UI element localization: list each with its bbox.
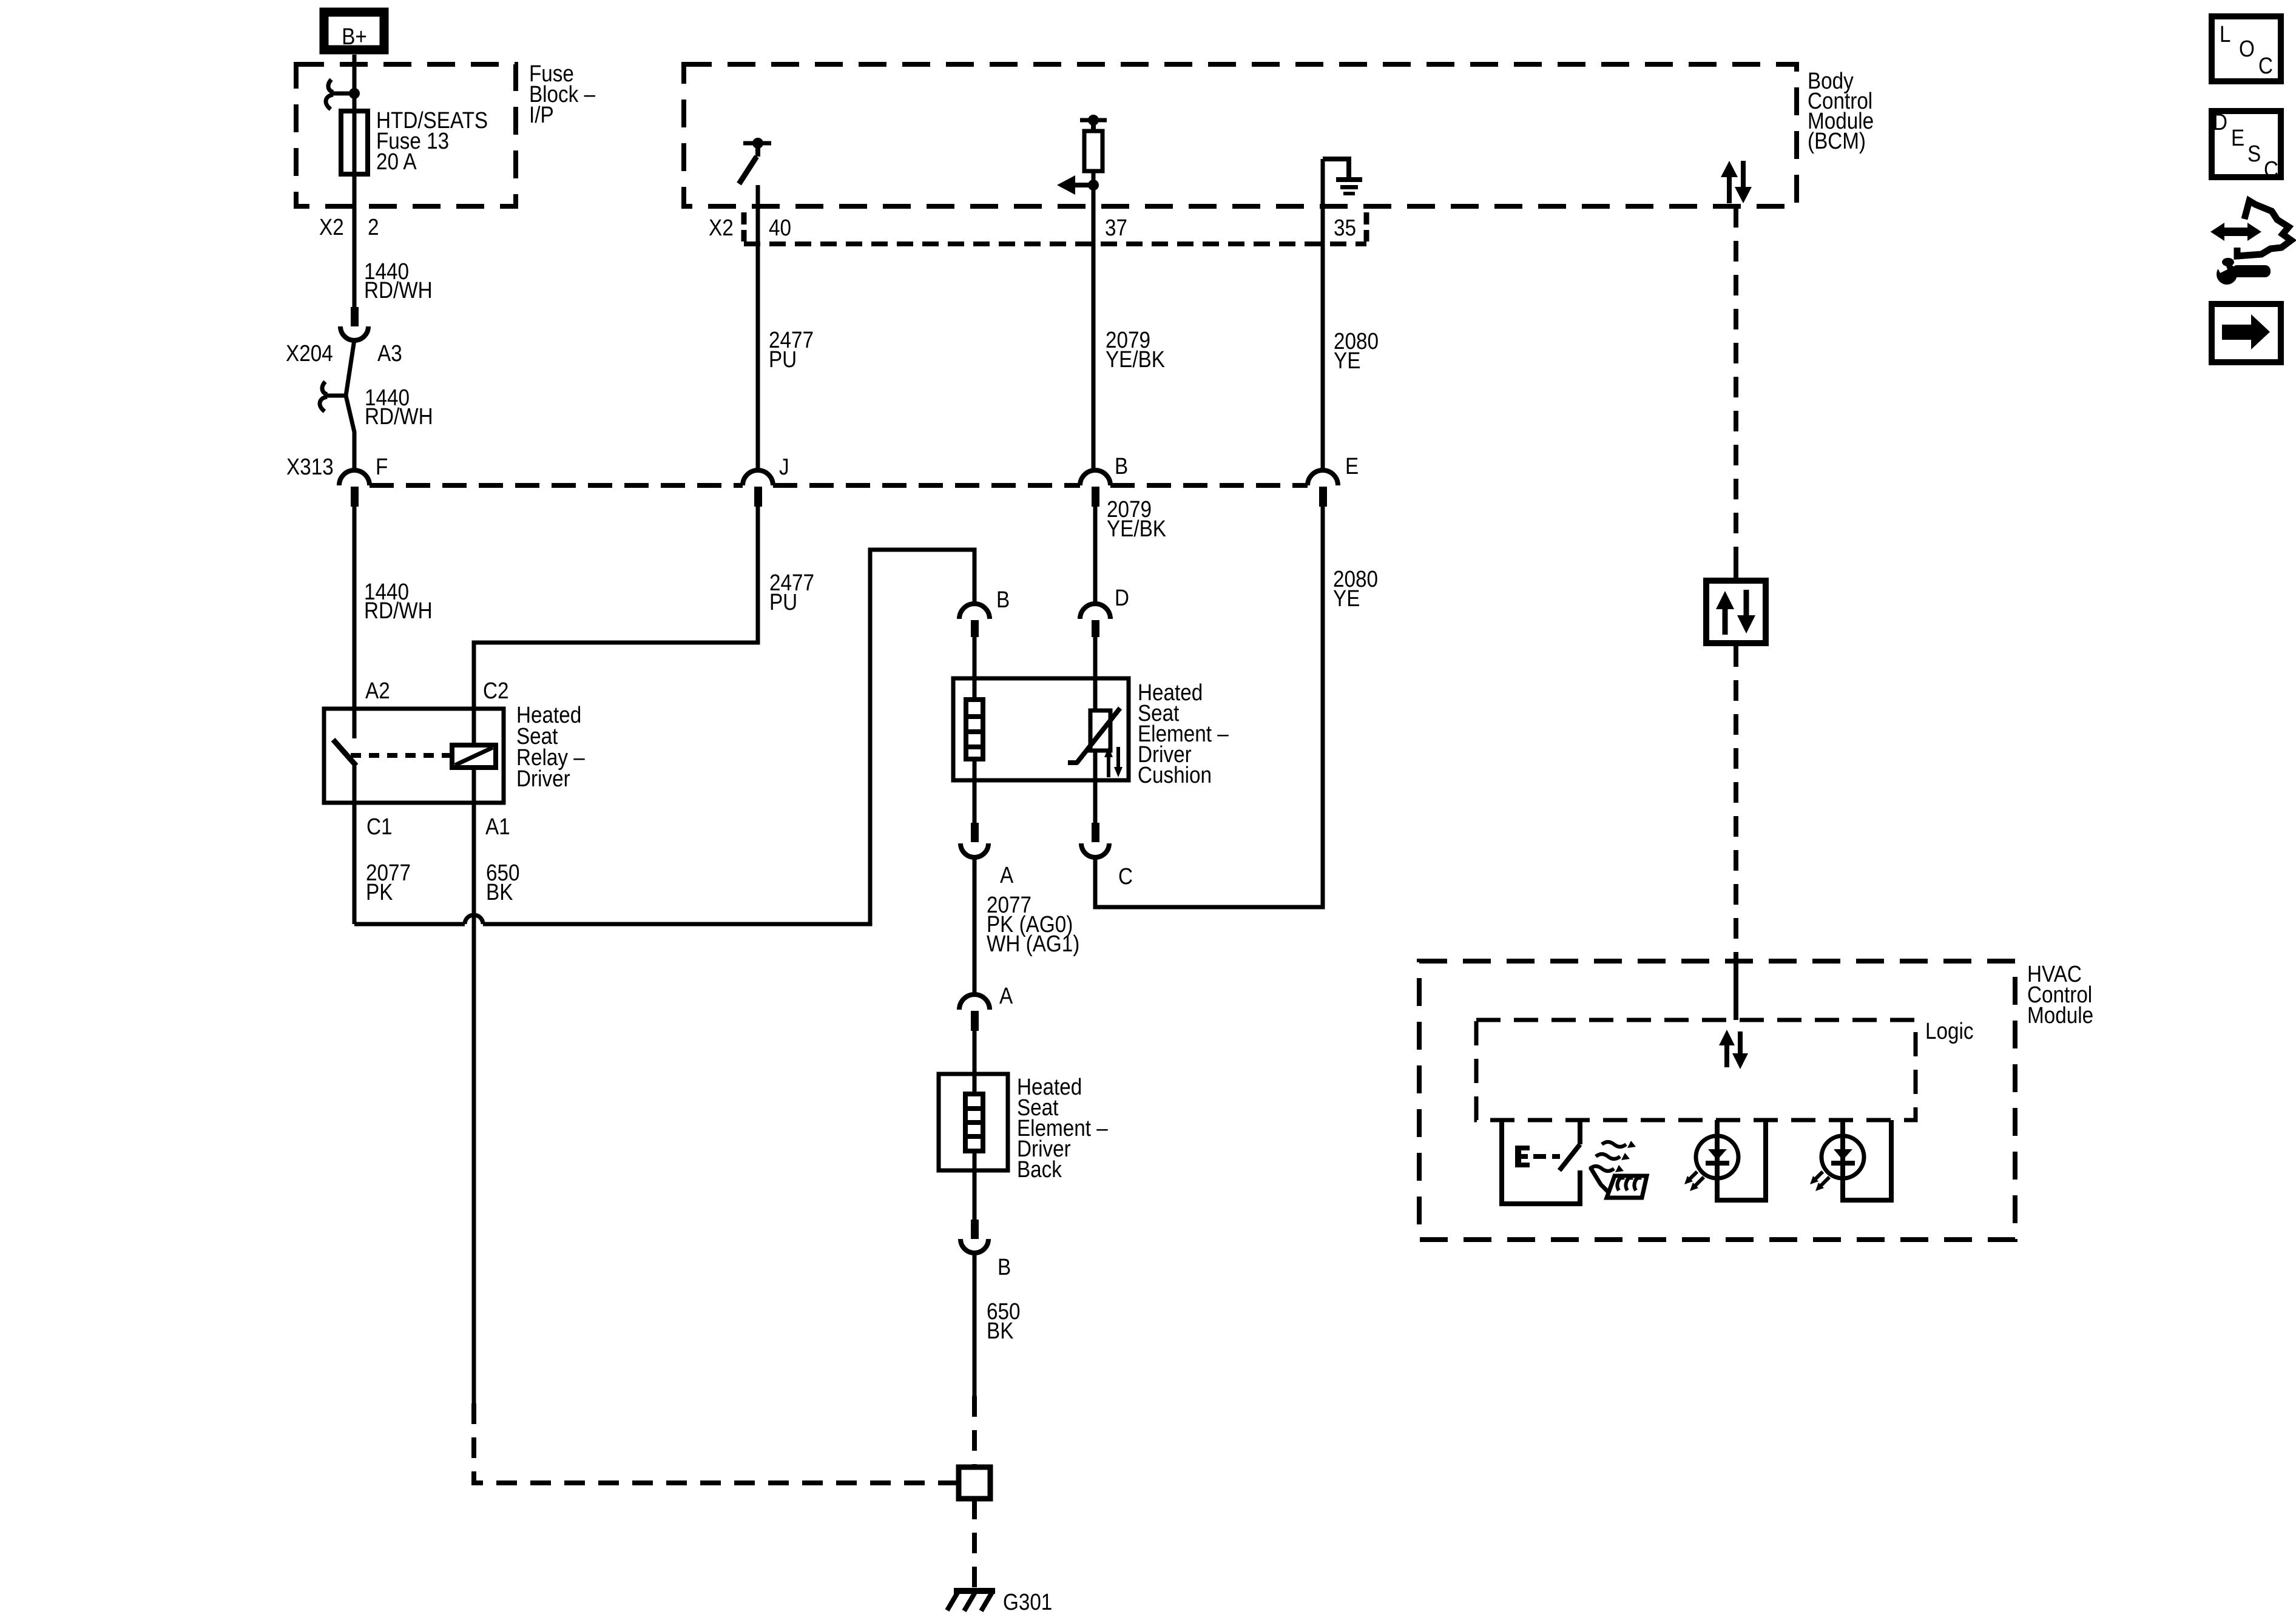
fuse F13 HTD/SEATS [341, 111, 368, 174]
svg-text:E: E [2231, 126, 2244, 151]
svg-text:PK: PK [366, 880, 393, 905]
wire B+ to fuse [353, 55, 357, 307]
wire take-out hook at fuse block [326, 79, 354, 109]
wire 1440 RD/WH label [364, 259, 433, 303]
svg-text:RD/WH: RD/WH [364, 278, 433, 303]
wire 650 BK to splice [973, 1252, 977, 1396]
cushion thermistor [1068, 708, 1120, 763]
connector X313 pin J [743, 454, 789, 507]
svg-text:B: B [1115, 454, 1128, 479]
svg-text:F: F [376, 454, 388, 480]
connector X2 pin 2 labels [319, 215, 379, 240]
svg-text:S: S [2247, 141, 2261, 167]
svg-text:37: 37 [1105, 215, 1127, 241]
svg-text:2: 2 [368, 215, 379, 240]
wire thermistor to pin C [1093, 751, 1098, 824]
cushion heater element [966, 700, 983, 759]
svg-text:X313: X313 [286, 454, 334, 480]
dashed splice to ground [972, 1499, 977, 1588]
node: junction dot on B+ feed [349, 88, 360, 99]
legend forward arrow box [2212, 304, 2281, 362]
heated seat element driver cushion box [953, 678, 1129, 780]
logic dashed box [1476, 1020, 1916, 1120]
svg-text:C2: C2 [483, 678, 509, 704]
relay coil [452, 745, 496, 768]
legend DESC box [2212, 110, 2281, 183]
wire 1440 RD/WH label 3 [364, 579, 433, 624]
wire 2477 PU label 2 [769, 570, 814, 615]
svg-text:Driver: Driver [516, 766, 570, 792]
svg-text:A1: A1 [485, 814, 510, 840]
svg-text:B+: B+ [342, 24, 367, 50]
BCM X2 connector strip [744, 212, 1366, 244]
svg-text:A: A [999, 984, 1013, 1009]
svg-text:C1: C1 [366, 814, 393, 840]
cushion label [1138, 680, 1229, 788]
wire A down [973, 857, 977, 996]
legend part locator icon [2210, 201, 2291, 285]
svg-text:C: C [2258, 53, 2273, 79]
svg-text:A2: A2 [365, 678, 390, 704]
connector X313 pin F [339, 470, 370, 507]
LED indicator 2 [1810, 1120, 1894, 1200]
svg-text:L: L [2220, 22, 2231, 47]
svg-text:A3: A3 [377, 341, 402, 366]
svg-text:RD/WH: RD/WH [365, 404, 433, 430]
svg-text:O: O [2239, 36, 2255, 62]
svg-text:YE/BK: YE/BK [1107, 516, 1166, 542]
BCM internal resistor at pin 37 [1080, 115, 1107, 171]
heated seat relay driver box [324, 709, 504, 803]
wire relay coil to A1 and down [472, 768, 476, 1403]
wire relay C1 down [353, 766, 357, 924]
wire X204 to X313 with take-out kink [346, 340, 354, 472]
svg-text:B: B [996, 587, 1010, 613]
BCM serial data arrows [1721, 161, 1752, 203]
connector X313 dashed harness line [370, 483, 1308, 488]
splice junction box [959, 1467, 990, 1499]
svg-text:Module: Module [2027, 1003, 2093, 1028]
LED indicator 1 [1684, 1120, 1768, 1200]
ground G301 [947, 1588, 1052, 1615]
BCM X2 pin labels [709, 215, 1356, 241]
wire B to cushion box [973, 637, 977, 700]
svg-text:X2: X2 [709, 215, 734, 241]
relay pin labels A2 C2 [365, 678, 509, 704]
BCM label [1808, 69, 1874, 154]
svg-text:C: C [2264, 157, 2278, 183]
svg-text:I/P: I/P [529, 103, 554, 128]
wire back element to pin B [973, 1151, 977, 1223]
connector X313 pin E [1308, 454, 1359, 507]
svg-text:20 A: 20 A [376, 149, 417, 175]
wire 2077 PK label [366, 860, 411, 905]
svg-text:YE/BK: YE/BK [1106, 347, 1165, 373]
connector X204 pin A3 [340, 307, 368, 340]
svg-text:(BCM): (BCM) [1808, 129, 1866, 154]
svg-text:40: 40 [769, 215, 791, 241]
wire F to relay A2 [353, 507, 357, 738]
connector X313 pin B [1080, 454, 1128, 507]
wire 2080 YE label 2 [1333, 567, 1378, 612]
svg-text:PU: PU [769, 590, 797, 615]
svg-text:BK: BK [486, 880, 513, 905]
svg-text:Cushion: Cushion [1138, 763, 1212, 788]
wire 650 BK label [486, 860, 520, 905]
connector pin B of back element [961, 1220, 1011, 1280]
BCM internal switch at pin 40 [739, 138, 771, 184]
svg-text:G301: G301 [1003, 1590, 1052, 1615]
svg-text:J: J [779, 454, 789, 480]
wire A1 dashed to G301 splice [474, 1403, 956, 1483]
power feed B+ [324, 12, 384, 50]
svg-text:WH (AG1): WH (AG1) [987, 931, 1079, 957]
connector X204 labels [286, 341, 402, 366]
wire C1 run to cushion B with hop over 650 BK [354, 550, 974, 924]
logic serial arrows [1719, 1030, 1748, 1069]
back heater element [965, 1094, 983, 1151]
svg-text:YE: YE [1333, 586, 1360, 612]
BCM internal ground at pin 35 [1323, 157, 1362, 195]
connector pin A of back element [959, 984, 1013, 1031]
wire pin B of X313 down to D [1093, 507, 1098, 606]
svg-text:X204: X204 [286, 341, 333, 366]
svg-text:D: D [1115, 586, 1129, 611]
fuse value label [376, 108, 488, 175]
svg-text:YE: YE [1334, 348, 1360, 374]
heated seat indicator icon [1590, 1141, 1647, 1198]
switch E label icon [1515, 1146, 1560, 1167]
dashed 650 BK to splice box [972, 1396, 977, 1467]
HVAC control module dashed box [1419, 961, 2015, 1240]
HVAC label [2027, 962, 2093, 1028]
legend LOC box [2212, 16, 2281, 81]
connector pin C of cushion element [1081, 823, 1133, 890]
serial data dashed line BCM to HVAC [1734, 207, 1738, 1020]
heated seat element driver back box [939, 1074, 1008, 1170]
connector pin B of cushion element [959, 587, 1010, 637]
wire 2077 PK WH label [987, 893, 1079, 957]
svg-text:X2: X2 [319, 215, 344, 240]
svg-text:A: A [1000, 863, 1014, 888]
relay switch blade [333, 740, 356, 766]
relay actuation dashed link [351, 753, 453, 758]
connector pin D of cushion element [1080, 586, 1129, 637]
BCM internal left arrow at pin 37 [1057, 175, 1099, 195]
wire 650 BK label 2 [987, 1299, 1021, 1344]
fuse block I/P dashed box [296, 64, 516, 206]
wire pin 37 [1092, 171, 1096, 470]
relay pin labels C1 A1 [366, 814, 510, 840]
body control module BCM dashed box [684, 64, 1797, 206]
svg-text:B: B [998, 1255, 1011, 1280]
svg-text:BK: BK [987, 1318, 1013, 1344]
wire pin 40 [756, 185, 760, 470]
cushion temp arrows [1104, 747, 1123, 777]
wire take-out hook at X204 [320, 382, 347, 411]
svg-text:35: 35 [1334, 215, 1356, 241]
wire A to back box [973, 1031, 977, 1094]
fuse block label [529, 61, 596, 128]
wire 1440 RD/WH label 2 [365, 385, 433, 430]
wire 2477 PU label [769, 328, 814, 373]
wire element to pin A [973, 759, 977, 824]
svg-text:C: C [1118, 864, 1133, 890]
wire pin E of X313 down and left to C [1095, 507, 1323, 907]
back label [1017, 1075, 1108, 1183]
svg-text:PU: PU [769, 347, 797, 373]
wire pin 35 [1321, 159, 1325, 470]
HVAC heated seat switch loop [1499, 1120, 1582, 1204]
svg-text:RD/WH: RD/WH [364, 598, 433, 624]
wire 2079 YE/BK label 2 [1107, 497, 1166, 542]
svg-text:Logic: Logic [1925, 1019, 1974, 1044]
wire D to thermistor [1093, 637, 1098, 711]
wire 2079 YE/BK label [1106, 328, 1165, 373]
relay label [516, 703, 585, 792]
connector X313 labels [286, 454, 388, 480]
connector pin A of cushion element [961, 823, 1014, 888]
svg-text:Back: Back [1017, 1157, 1062, 1183]
wire J to relay C2 [474, 507, 758, 745]
svg-text:E: E [1345, 454, 1359, 479]
serial data gateway box [1706, 564, 1766, 660]
svg-text:D: D [2213, 110, 2227, 135]
wire 2080 YE label [1334, 329, 1379, 374]
